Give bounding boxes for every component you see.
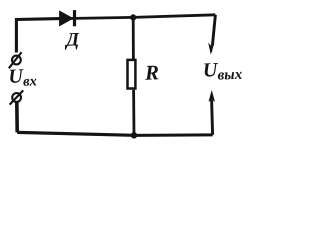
label Uвых xyxy=(203,58,243,84)
arrow up (output -) xyxy=(209,90,216,135)
arrow down (output +) xyxy=(208,43,214,55)
wire xyxy=(132,90,135,136)
terminal ø (input top) xyxy=(9,52,22,68)
wire xyxy=(132,17,135,59)
wire xyxy=(15,102,19,133)
wire xyxy=(212,15,215,46)
svg-text:Uвх: Uвх xyxy=(8,65,37,90)
label R xyxy=(144,60,160,85)
svg-text:R: R xyxy=(144,60,160,85)
wire xyxy=(60,17,133,18)
svg-text:Д: Д xyxy=(64,29,81,51)
wire xyxy=(16,19,60,53)
junction dot xyxy=(131,132,137,138)
label Uвх xyxy=(8,65,37,90)
resistor R xyxy=(128,60,136,89)
terminal ø (input bottom) xyxy=(10,90,24,104)
svg-text:Uвых: Uвых xyxy=(203,58,243,84)
wire xyxy=(134,133,213,137)
label Д xyxy=(64,29,81,51)
junction dot xyxy=(130,14,136,20)
wire xyxy=(17,132,134,135)
wire xyxy=(133,15,215,18)
diode Д xyxy=(60,10,77,26)
